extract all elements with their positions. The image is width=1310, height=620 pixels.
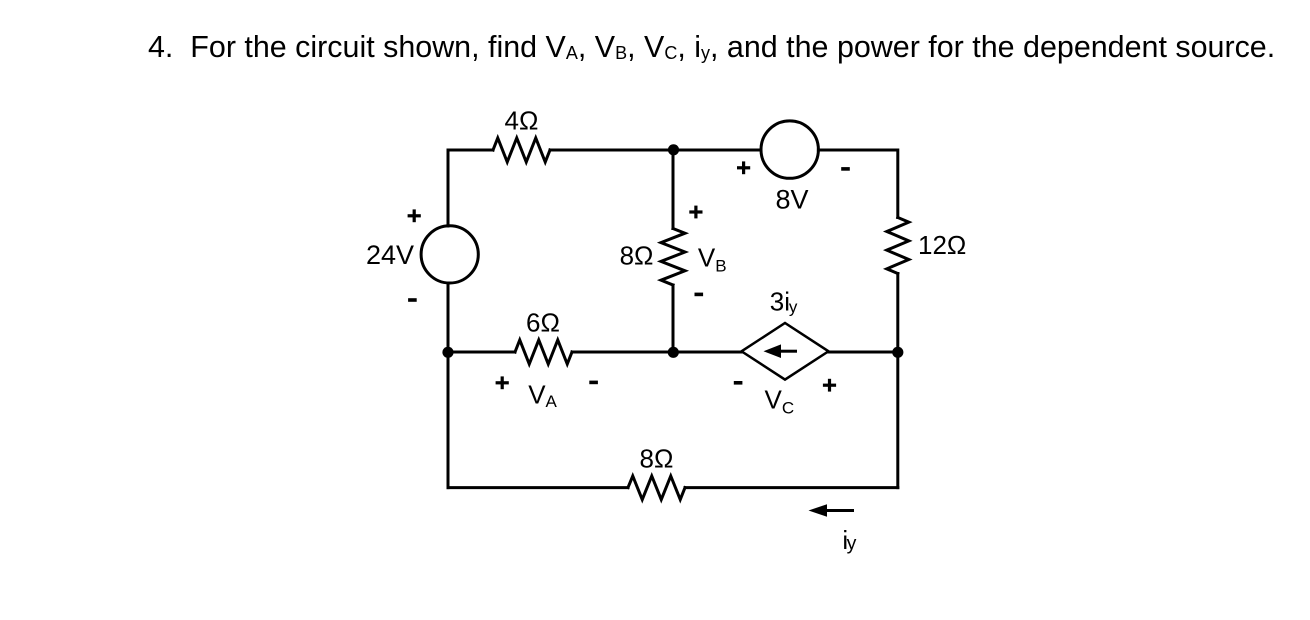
wire: bottom from 8ohm to right corner	[685, 486, 898, 489]
arrow inside dependent source pointing left	[764, 344, 782, 358]
label minus of VA	[589, 381, 598, 385]
problem statement text	[148, 30, 1275, 65]
label minus of 8V	[841, 167, 850, 171]
wire: top middle from 4ohm to 8V source	[550, 149, 761, 152]
svg-text:VB: VB	[698, 243, 727, 276]
resistor R 6ohm zigzag	[515, 340, 572, 364]
svg-text:8Ω: 8Ω	[620, 241, 654, 271]
label plus of VC	[823, 379, 836, 392]
label minus of VB	[695, 293, 704, 297]
resistor R 8ohm bottom zigzag	[628, 476, 685, 500]
svg-text:8V: 8V	[775, 185, 808, 215]
wire: left wall from left-middle node down to bottom corner	[447, 352, 450, 488]
node dot left middle	[442, 347, 453, 358]
resistor R 12ohm zigzag vertical	[887, 218, 909, 274]
label plus of 8V	[737, 161, 750, 174]
wire: top-left vertical from top wire to 24V source top	[448, 150, 493, 226]
svg-text:8Ω: 8Ω	[640, 443, 674, 473]
wire: middle row from middle node to diamond	[673, 351, 742, 354]
wire: middle vertical from 8ohm to middle node	[672, 285, 675, 352]
resistor R 8ohm vertical zigzag	[661, 229, 685, 286]
wire: middle vertical from top node down to 8ohm	[672, 150, 675, 229]
label plus of VA	[496, 376, 509, 389]
label plus of VB	[689, 206, 702, 219]
svg-text:VA: VA	[528, 380, 557, 412]
wire: top right from 8V source to right wall corner, down to 12ohm	[818, 150, 897, 218]
label minus of 24V	[408, 298, 417, 302]
svg-text:VC: VC	[765, 385, 795, 418]
wire: left wall from 24V bottom to left-middle node	[447, 283, 450, 352]
wire: bottom from left corner to 8ohm	[448, 486, 628, 489]
svg-text:6Ω: 6Ω	[526, 308, 560, 338]
current arrow iy pointing left	[809, 504, 828, 517]
svg-text:iy: iy	[842, 525, 856, 555]
voltage source 24V circle	[421, 226, 478, 283]
label plus of 24V	[408, 209, 421, 222]
voltage source 8V circle	[761, 121, 818, 178]
node dot top middle	[668, 144, 679, 155]
svg-text:3iy: 3iy	[770, 287, 798, 317]
svg-text:24V: 24V	[366, 240, 414, 270]
dependent source 3iy diamond	[742, 323, 829, 380]
wire: right wall from middle node down to bottom corner	[896, 352, 899, 488]
wire: middle row from left node to 6ohm	[448, 351, 515, 354]
node dot center middle	[668, 347, 679, 358]
node dot right middle	[892, 347, 903, 358]
wire: middle row from 6ohm to middle node	[572, 351, 673, 354]
label minus of VC	[734, 381, 743, 385]
wire: middle row from diamond to right node	[829, 351, 898, 354]
svg-text:12Ω: 12Ω	[918, 230, 966, 260]
wire: right wall from 12ohm down to middle node	[896, 274, 899, 353]
svg-text:4Ω: 4Ω	[505, 106, 539, 136]
resistor R 4ohm zigzag	[493, 138, 550, 162]
